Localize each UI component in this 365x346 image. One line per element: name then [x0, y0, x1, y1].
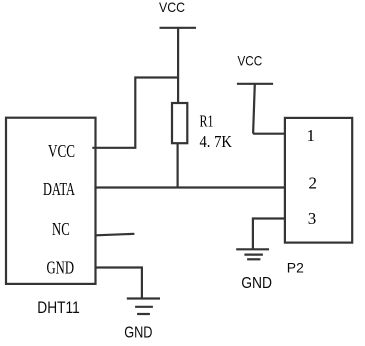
wire: DATA net from DHT11 to P2 pin 2 — [94, 186, 285, 188]
svg-text:VCC: VCC — [48, 141, 75, 161]
DHT11 component box — [6, 118, 96, 284]
wire: DHT11 GND pin to ground — [95, 268, 142, 299]
VCC power symbol right: bar — [237, 83, 273, 85]
wire: NC stub — [96, 234, 134, 236]
svg-text:NC: NC — [52, 219, 70, 239]
svg-text:1: 1 — [307, 126, 316, 145]
svg-text:3: 3 — [308, 209, 317, 228]
svg-text:VCC: VCC — [159, 0, 185, 15]
resistor R1 body — [172, 103, 187, 143]
svg-text:GND: GND — [241, 275, 272, 292]
wire: VCC stem down to resistor R1 top — [177, 28, 179, 104]
ground symbol left — [127, 299, 160, 315]
wire: P2 pin 3 to ground — [253, 219, 286, 250]
P2 connector box — [285, 118, 352, 243]
ground symbol right — [236, 249, 269, 259]
wire: VCC right stem (slightly slanted) — [253, 84, 255, 134]
svg-text:DATA: DATA — [43, 179, 75, 199]
wire: branch from stem to DHT11 VCC pin — [92, 78, 178, 148]
svg-text:2: 2 — [309, 173, 318, 192]
svg-text:P2: P2 — [287, 260, 304, 275]
svg-text:GND: GND — [47, 257, 75, 277]
VCC power symbol top: bar — [160, 27, 197, 29]
svg-text:VCC: VCC — [238, 53, 263, 69]
wire: to P2 pin 1 — [253, 133, 285, 135]
svg-text:GND: GND — [124, 325, 152, 342]
svg-text:R1: R1 — [200, 112, 214, 131]
svg-text:DHT11: DHT11 — [37, 299, 79, 317]
svg-text:4. 7K: 4. 7K — [200, 132, 233, 151]
wire: resistor R1 bottom lead to DATA net — [177, 143, 179, 189]
